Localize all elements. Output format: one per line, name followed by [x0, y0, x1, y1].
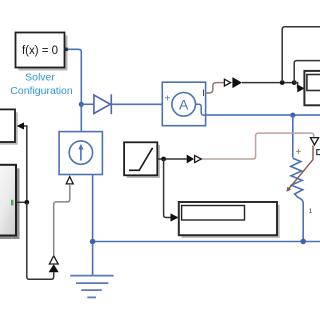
- tiny clipped port square at right edge: [317, 150, 320, 155]
- svg-text:I: I: [202, 88, 205, 98]
- scope screen: [307, 75, 320, 91]
- svg-text:+: +: [295, 147, 301, 158]
- node bus junction right: [300, 239, 306, 245]
- svg-text:Configuration: Configuration: [10, 85, 73, 97]
- variable resistor diagonal arrow: [288, 160, 313, 190]
- arrowhead into display: [171, 213, 179, 221]
- ramp block: [124, 142, 157, 175]
- wire branch up to top edge: [282, 27, 320, 83]
- wire into upper-left block from junction: [24, 126, 27, 202]
- node bus junction left: [90, 239, 96, 245]
- wire ammeter minus to right edge: [206, 114, 320, 116]
- display inner screen: [182, 206, 245, 221]
- solver configuration block f(x)=0: [16, 33, 65, 68]
- ammeter U1 block: [162, 82, 205, 126]
- converter PS-Simulink hollow port triangle: [224, 79, 230, 86]
- upper-left subsystem block (clipped): [0, 109, 15, 142]
- arrowhead into scope: [297, 84, 304, 92]
- wire converter to scope area: [242, 82, 294, 84]
- converter PS-Simulink solid block triangle: [232, 77, 242, 88]
- wire left vertical down and to converter: [27, 202, 54, 279]
- ramp icon: [129, 148, 153, 171]
- wire grey block output: [16, 201, 27, 203]
- upper-left subsystem block shadow: [0, 112, 18, 145]
- converter Simulink-PS solid triangle: [187, 155, 194, 164]
- wire (PS) maroon below triangle: [312, 146, 314, 160]
- resistor R zigzag: [291, 158, 304, 241]
- ammeter internal wire to minus port: [196, 104, 206, 115]
- converter Simulink-PS hollow triangle: [195, 155, 202, 162]
- grey subsystem block shadow: [0, 168, 20, 239]
- wire (PS) grey S-path up to current source control port: [54, 184, 70, 256]
- converter solid triangle pointing up: [49, 264, 59, 272]
- ground symbol: [70, 275, 113, 277]
- wire diode cathode to ammeter: [111, 103, 162, 105]
- wire node A to diode anode: [81, 103, 94, 105]
- svg-text:+: +: [165, 93, 171, 104]
- current source block: [59, 132, 102, 175]
- display block: [179, 202, 277, 235]
- wire branch up to mid edge: [294, 61, 320, 83]
- resistor R top lead: [292, 115, 294, 157]
- svg-text:f(x) = 0: f(x) = 0: [22, 45, 58, 57]
- ammeter circle: [172, 93, 196, 117]
- wire current source top port: [80, 104, 82, 131]
- wire solver output to node A: [68, 49, 81, 104]
- wire (PS) from converter to resistor control: [201, 133, 313, 159]
- green badge on grey block: [11, 200, 13, 206]
- bus wire bottom horizontal: [93, 241, 320, 243]
- wire jog into scope input: [294, 83, 297, 89]
- wire ramp branch down to display: [164, 159, 171, 218]
- ramp block shadow: [127, 145, 160, 178]
- node junction dot upper branch: [280, 80, 285, 85]
- node junction on left vertical wire: [24, 200, 29, 205]
- current source arrow: [80, 148, 82, 161]
- node junction on minus wire: [290, 113, 295, 118]
- arrowhead into upper-left block: [17, 122, 24, 129]
- svg-text:Solver: Solver: [25, 72, 55, 84]
- node junction dot second branch: [292, 80, 297, 85]
- display block shadow: [182, 205, 280, 238]
- control port hollow triangle under current source: [66, 177, 73, 184]
- port square of solver block: [65, 48, 68, 51]
- wire ramp output: [157, 158, 186, 160]
- diode D1: [94, 95, 111, 114]
- node A junction dot: [79, 102, 84, 107]
- node junction after ramp: [161, 157, 166, 162]
- solver configuration block shadow: [19, 36, 68, 71]
- current source circle: [69, 141, 92, 164]
- wire (PS) ammeter I port S-curve: [206, 83, 225, 93]
- svg-text:1: 1: [309, 208, 313, 215]
- converter hollow triangle pointing up: [49, 256, 58, 264]
- wire current source bottom to ground bus: [92, 175, 94, 276]
- svg-text:A: A: [179, 96, 189, 112]
- hollow port triangle pointing down: [311, 138, 319, 145]
- scope block (clipped at right edge): [304, 71, 320, 105]
